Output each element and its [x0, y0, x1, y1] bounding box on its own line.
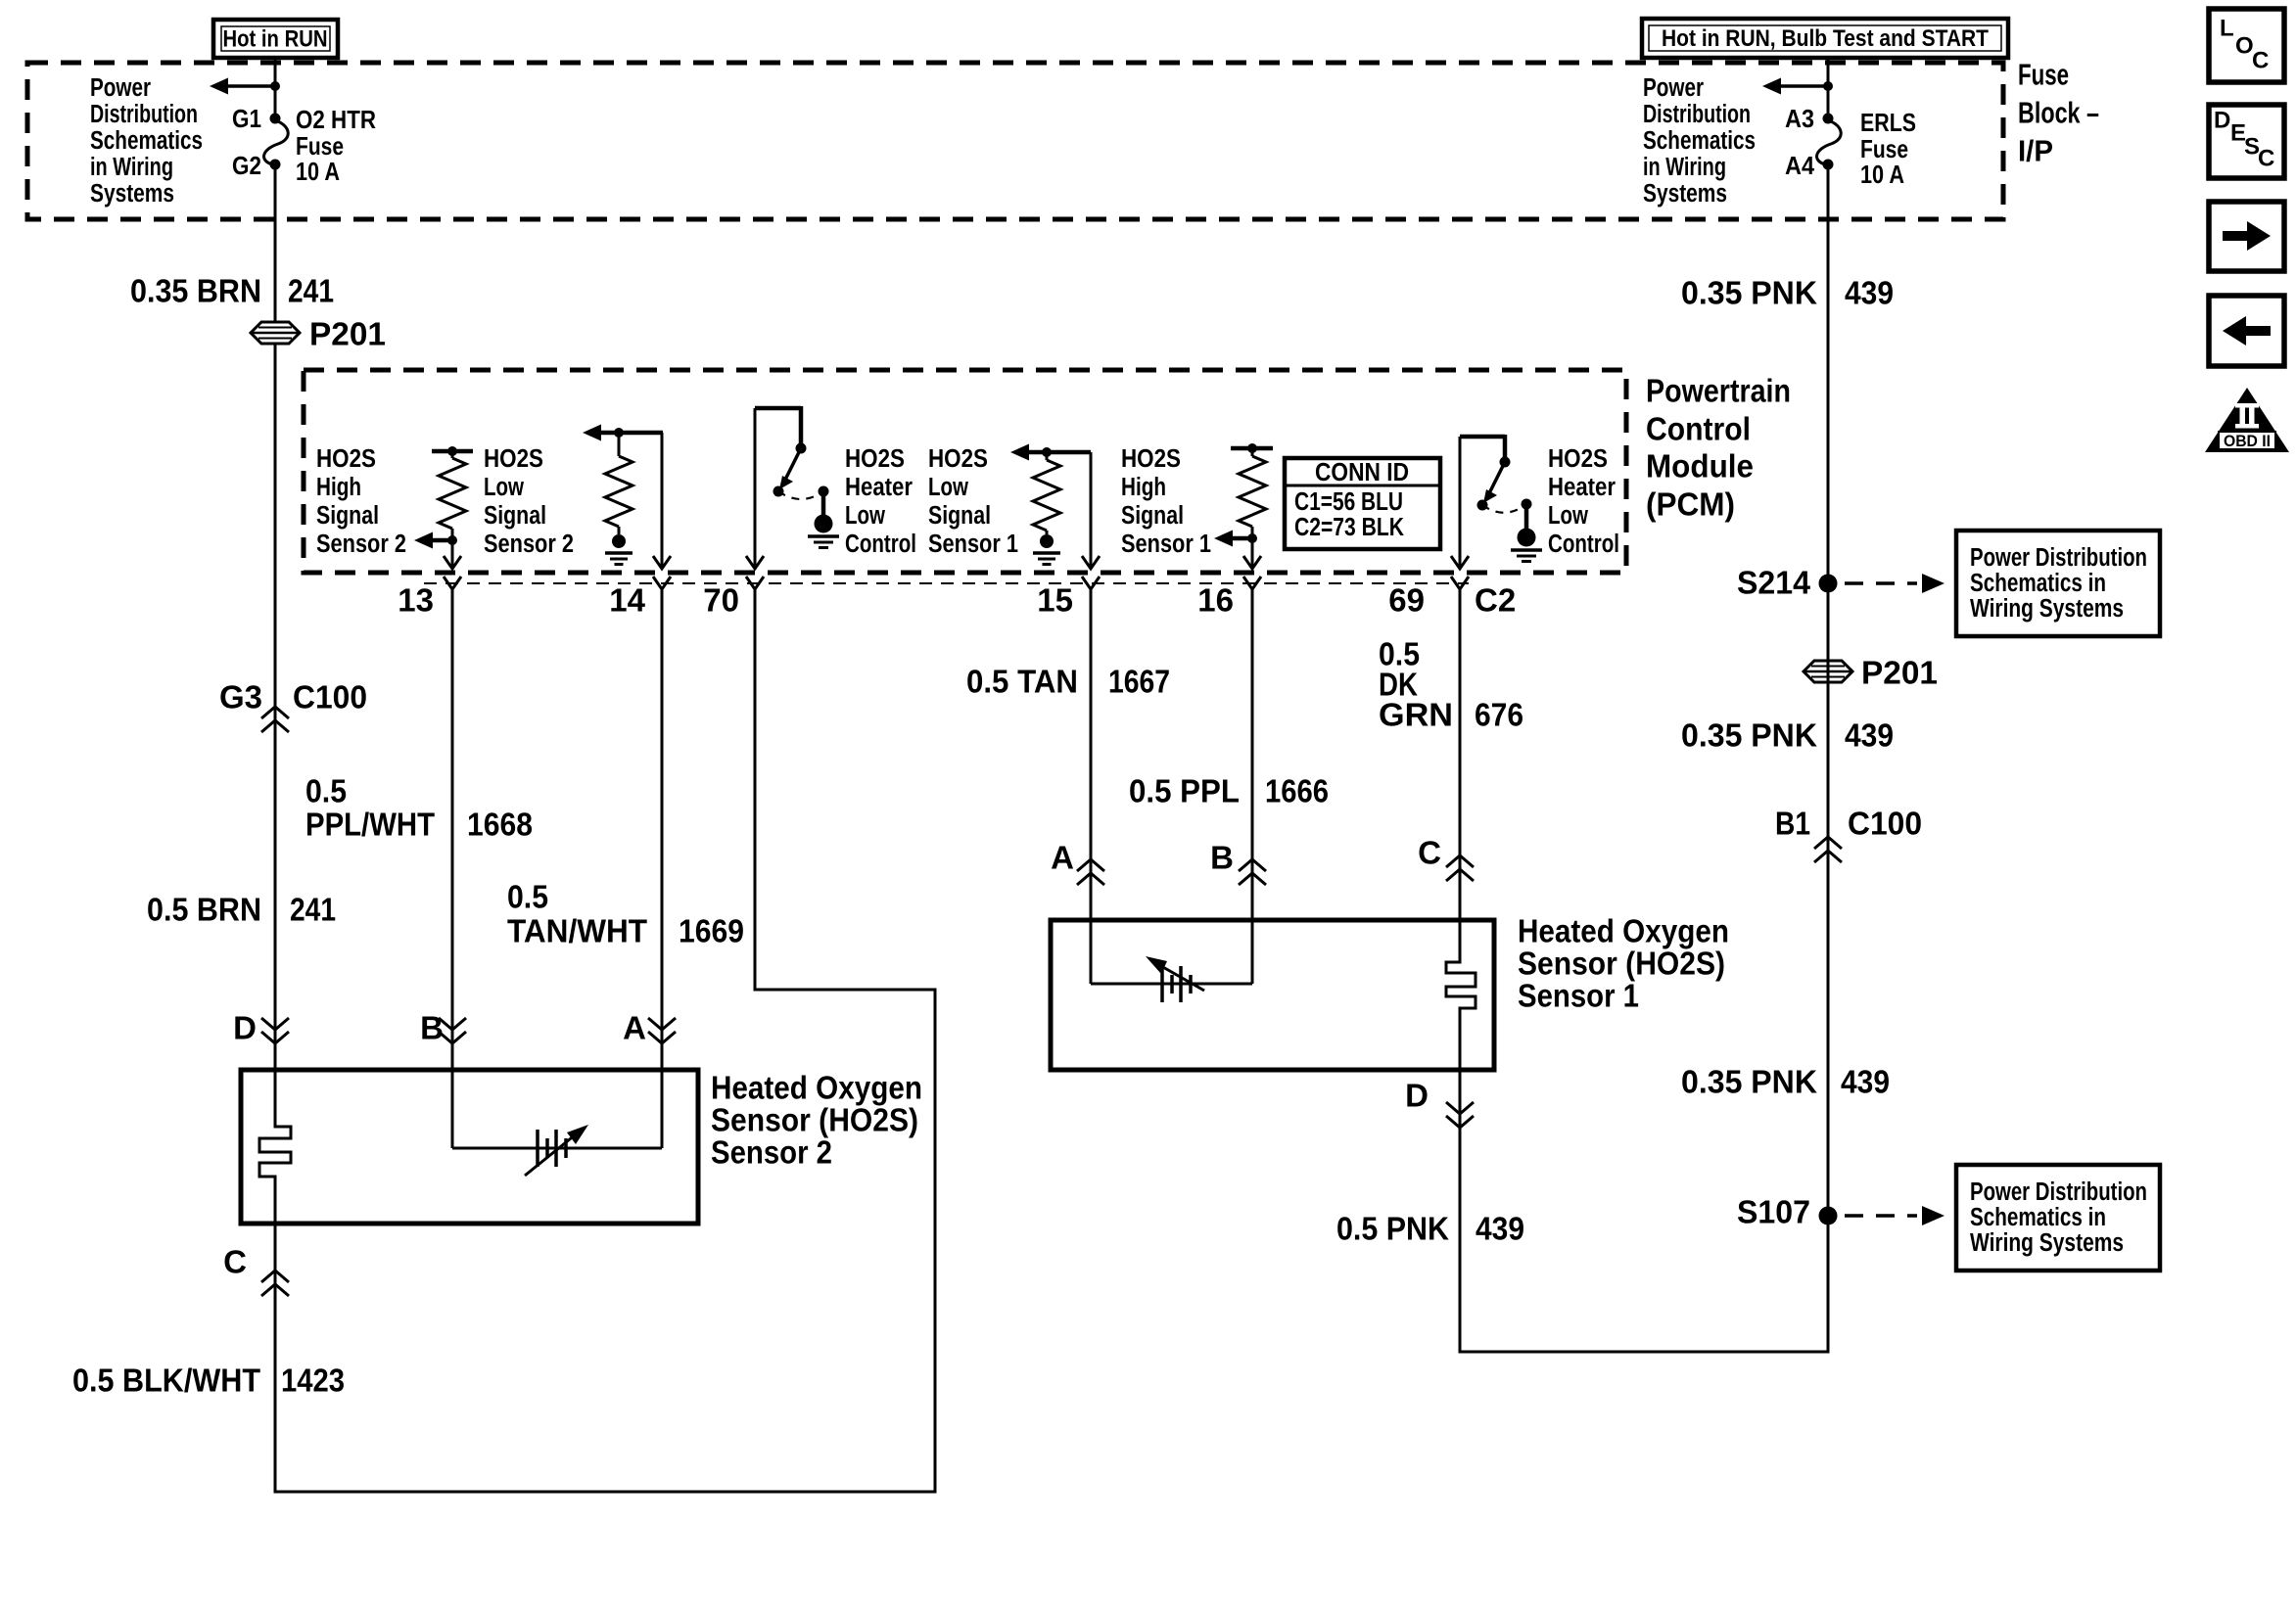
svg-text:Low: Low [845, 502, 885, 530]
svg-text:PPL/WHT: PPL/WHT [305, 807, 435, 843]
svg-text:Sensor 1: Sensor 1 [928, 531, 1018, 558]
label: HO2S High Signal Sensor 2 text [316, 445, 406, 558]
svg-text:439: 439 [1845, 275, 1894, 311]
svg-text:HO2S: HO2S [1548, 445, 1608, 473]
svg-text:0.5 BRN: 0.5 BRN [147, 892, 261, 928]
svg-text:Power Distribution: Power Distribution [1970, 1178, 2147, 1206]
wire: right feed from Hot in RUN bulb test box to fuse A3 [1827, 58, 1830, 118]
label: 0.35 PNK | 439 (top) [1681, 275, 1894, 311]
svg-text:Schematics in: Schematics in [1970, 570, 2106, 597]
sensing element sensor 1 (variable cell with arrow) [1091, 956, 1252, 1002]
label: G1 [232, 104, 261, 133]
svg-text:439: 439 [1476, 1211, 1524, 1247]
pin D sensor 1 [1405, 1078, 1474, 1129]
svg-text:10 A: 10 A [1860, 160, 1904, 189]
label: 0.35 PNK | 439 (middle) [1681, 717, 1894, 754]
svg-text:Power Distribution: Power Distribution [1970, 544, 2147, 572]
svg-text:0.35 PNK: 0.35 PNK [1681, 1064, 1817, 1100]
svg-text:A4: A4 [1785, 151, 1814, 180]
svg-text:Signal: Signal [484, 502, 546, 530]
svg-text:Signal: Signal [928, 502, 991, 530]
svg-text:C: C [223, 1244, 247, 1280]
pin 14 connector arrow [653, 556, 671, 589]
ground: R2 ground [605, 534, 633, 565]
svg-text:Schematics: Schematics [1643, 127, 1756, 155]
label: 0.5 DK GRN | 676 [1379, 636, 1523, 733]
svg-text:C100: C100 [1848, 806, 1922, 842]
label: 0.5 PNK | 439 [1336, 1211, 1524, 1247]
svg-text:G1: G1 [232, 104, 261, 133]
svg-text:C100: C100 [293, 679, 367, 716]
label: HO2S High Signal Sensor 1 text [1121, 445, 1211, 558]
svg-text:S107: S107 [1737, 1194, 1810, 1230]
svg-text:Heater: Heater [845, 474, 913, 501]
svg-text:Module: Module [1646, 448, 1754, 485]
svg-text:D: D [1405, 1078, 1429, 1114]
svg-text:Power: Power [90, 74, 151, 102]
wire: right feed PNK 439 [1827, 164, 1830, 1352]
svg-text:0.35 BRN: 0.35 BRN [130, 273, 261, 309]
connector C100 pin G3 [219, 679, 367, 733]
svg-text:Hot in RUN: Hot in RUN [223, 26, 328, 53]
Heated Oxygen Sensor HO2S Sensor 2 box [241, 1070, 698, 1224]
label: Fuse Block - I/P [2018, 58, 2099, 168]
svg-text:A: A [1051, 840, 1074, 876]
icon: forward arrow button [2209, 202, 2284, 271]
svg-text:in Wiring: in Wiring [1643, 154, 1726, 181]
svg-text:0.5: 0.5 [507, 879, 548, 915]
svg-text:O2 HTR: O2 HTR [296, 105, 376, 134]
svg-text:B: B [1210, 840, 1234, 876]
svg-text:Power: Power [1643, 74, 1704, 102]
label: G2 [232, 151, 261, 180]
wire 1669 TAN/WHT (pin 14) [661, 589, 664, 1148]
svg-text:G3: G3 [219, 679, 262, 716]
svg-text:GRN: GRN [1379, 697, 1453, 733]
svg-text:HO2S: HO2S [928, 445, 988, 473]
icon: back arrow button [2209, 296, 2284, 366]
splice S107 [1737, 1194, 1945, 1230]
arrow: internal signal pin 16 [1214, 531, 1252, 547]
resistor R4: HO2S high signal sensor 1 pullup (pin 16) [1231, 443, 1273, 569]
svg-text:0.5 PNK: 0.5 PNK [1336, 1211, 1449, 1247]
svg-text:0.35 PNK: 0.35 PNK [1681, 275, 1817, 311]
svg-text:in Wiring: in Wiring [90, 154, 173, 181]
svg-text:1667: 1667 [1108, 664, 1170, 700]
wire 1423 BLK/WHT heater return loop (pin 70) [275, 589, 935, 1492]
label: HO2S Heater Low Control text (right) [1548, 445, 1619, 558]
svg-text:Control: Control [845, 531, 916, 558]
svg-text:241: 241 [288, 273, 334, 309]
svg-text:L: L [2220, 16, 2234, 42]
pin 15 connector arrow [1082, 556, 1100, 589]
label: 0.5 PPL | 1666 [1129, 773, 1329, 809]
label: HO2S Low Signal Sensor 1 text [928, 445, 1018, 558]
label: Heated Oxygen Sensor (HO2S) Sensor 2 [711, 1070, 922, 1171]
splice S214 [1737, 565, 1945, 601]
wire: sensor2 heater return C to chevron [223, 1244, 289, 1297]
pin 70 connector arrow [746, 556, 764, 589]
sensing element sensor 2 (variable cell with arrow) [452, 1125, 662, 1176]
switch SW1: HO2S heater low control (pin 70) [755, 406, 829, 569]
svg-text:70: 70 [703, 582, 739, 619]
svg-text:C: C [1418, 835, 1441, 871]
label: power distribution schematics text (left) [90, 74, 203, 208]
label: A3 [1785, 104, 1814, 133]
svg-text:P201: P201 [1861, 655, 1938, 691]
svg-text:Low: Low [928, 474, 968, 501]
wire: sensor1 heater return to S107 [1460, 1070, 1828, 1352]
heater element sensor 1 [1446, 920, 1476, 1070]
svg-text:Sensor 1: Sensor 1 [1518, 978, 1639, 1014]
label: 0.5 BRN | 241 [147, 892, 336, 928]
wire: left feed P201 to sensor2 box [274, 344, 277, 1070]
svg-text:Schematics: Schematics [90, 127, 203, 155]
label: 0.5 BLK/WHT | 1423 [72, 1363, 345, 1399]
label: HO2S Heater Low Control text (left) [845, 445, 916, 558]
svg-text:S214: S214 [1737, 565, 1811, 601]
node: junction dot right feed [1823, 81, 1833, 91]
switch SW2: HO2S heater low control (pin 69) [1460, 435, 1532, 569]
heater element sensor 2 [259, 1070, 291, 1224]
icon: OBD II triangle [2205, 388, 2289, 452]
svg-text:Heated Oxygen: Heated Oxygen [1518, 913, 1729, 949]
svg-text:Low: Low [484, 474, 524, 501]
wire: arrow to power distribution (right) [1762, 78, 1828, 95]
svg-text:Sensor 2: Sensor 2 [484, 531, 574, 558]
svg-text:Signal: Signal [316, 502, 379, 530]
svg-text:1666: 1666 [1265, 773, 1329, 809]
label: 0.5 PPL/WHT | 1668 [305, 773, 533, 843]
label: Hot in RUN box [213, 20, 338, 58]
ground: SW2 ground [1511, 529, 1542, 562]
svg-text:Hot in RUN, Bulb Test and STAR: Hot in RUN, Bulb Test and START [1662, 25, 1989, 52]
svg-text:Sensor (HO2S): Sensor (HO2S) [1518, 946, 1725, 982]
svg-text:A3: A3 [1785, 104, 1814, 133]
PCM dashed box [304, 370, 1626, 573]
svg-text:0.5: 0.5 [305, 773, 347, 809]
label: A4 [1785, 151, 1814, 180]
arrow: internal signal pin 13 [414, 532, 452, 549]
ground: SW1 ground [808, 515, 839, 548]
label: ERLS Fuse 10 A [1860, 108, 1916, 189]
svg-text:439: 439 [1841, 1064, 1890, 1100]
svg-text:Control: Control [1548, 531, 1619, 558]
svg-text:1669: 1669 [679, 913, 744, 949]
grommet P201 (right) [1804, 655, 1938, 691]
svg-text:A: A [623, 1010, 646, 1046]
wire: left feed from Hot in RUN to fuse G1 [274, 58, 277, 118]
svg-text:Block –: Block – [2018, 96, 2099, 130]
svg-text:G2: G2 [232, 151, 261, 180]
wire: arrow to power distribution (left) [210, 78, 275, 95]
svg-text:13: 13 [398, 582, 434, 619]
svg-text:HO2S: HO2S [316, 445, 376, 473]
wire: 0.35 BRN 241 feed down to P201 [274, 164, 277, 322]
wire 1666 PPL (pin 16) [1251, 589, 1254, 984]
resistor R3: HO2S low signal sensor 1 to ground [1010, 444, 1091, 535]
svg-text:CONN ID: CONN ID [1315, 459, 1409, 486]
svg-text:TAN/WHT: TAN/WHT [507, 913, 647, 949]
svg-text:1668: 1668 [467, 807, 533, 843]
pin B sensor 2 [420, 1010, 466, 1046]
svg-text:Wiring Systems: Wiring Systems [1970, 1229, 2124, 1257]
svg-text:0.5 PPL: 0.5 PPL [1129, 773, 1240, 809]
CONN ID table [1285, 458, 1440, 549]
wire 1667 TAN (pin 15) [1090, 589, 1093, 984]
resistor R2: HO2S low signal sensor 2 to ground [583, 425, 663, 535]
label: Hot in RUN, Bulb Test and START box [1642, 19, 2008, 58]
svg-text:0.35 PNK: 0.35 PNK [1681, 717, 1817, 754]
PCM connector face dashed line [424, 582, 1469, 584]
svg-text:Signal: Signal [1121, 502, 1184, 530]
svg-text:Powertrain: Powertrain [1646, 373, 1791, 409]
svg-text:I/P: I/P [2018, 134, 2053, 168]
svg-text:High: High [316, 474, 361, 501]
label: 0.35 BRN | 241 [130, 273, 334, 309]
pin D sensor 2 [233, 1010, 289, 1046]
svg-text:Sensor 2: Sensor 2 [316, 531, 406, 558]
svg-text:Low: Low [1548, 502, 1588, 530]
svg-text:High: High [1121, 474, 1166, 501]
node: junction dot left feed [270, 81, 280, 91]
svg-text:D: D [233, 1010, 257, 1046]
svg-text:0.5 BLK/WHT: 0.5 BLK/WHT [72, 1363, 260, 1399]
svg-text:C: C [2258, 146, 2274, 172]
label: Heated Oxygen Sensor (HO2S) Sensor 1 [1518, 913, 1729, 1014]
svg-text:Systems: Systems [1643, 180, 1727, 208]
svg-text:(PCM): (PCM) [1646, 486, 1735, 523]
svg-text:16: 16 [1197, 582, 1234, 619]
svg-text:1423: 1423 [281, 1363, 345, 1399]
svg-text:Schematics in: Schematics in [1970, 1204, 2106, 1231]
label: S214 power distribution box [1956, 531, 2160, 636]
label: 0.5 TAN | 1667 [966, 664, 1170, 700]
wire 676 DK GRN (pin 69) [1459, 589, 1462, 962]
pin 13 connector arrow [444, 556, 461, 589]
svg-text:Sensor 2: Sensor 2 [711, 1134, 832, 1171]
wire: pin 14 riser [661, 433, 664, 569]
svg-text:14: 14 [609, 582, 645, 619]
pin A sensor 1 [1051, 840, 1104, 886]
pin C sensor 1 [1418, 835, 1474, 882]
svg-text:C: C [2252, 48, 2269, 74]
svg-text:10 A: 10 A [296, 157, 340, 186]
svg-text:O: O [2235, 33, 2254, 60]
resistor R1: HO2S high signal sensor 2 pullup (pin 13) [432, 446, 473, 569]
svg-text:Heated Oxygen: Heated Oxygen [711, 1070, 922, 1106]
Heated Oxygen Sensor HO2S Sensor 1 box [1051, 920, 1494, 1070]
wire: pin 15 riser [1090, 452, 1093, 569]
svg-text:ERLS: ERLS [1860, 108, 1916, 137]
label: S107 power distribution box [1956, 1165, 2160, 1270]
pin 69/C2 connector arrow [1451, 556, 1469, 589]
svg-text:Distribution: Distribution [90, 101, 198, 128]
svg-text:OBD II: OBD II [2224, 432, 2271, 450]
svg-text:Sensor (HO2S): Sensor (HO2S) [711, 1102, 918, 1138]
svg-text:HO2S: HO2S [1121, 445, 1181, 473]
pin A sensor 2 [623, 1010, 676, 1046]
svg-text:Fuse: Fuse [2018, 58, 2069, 92]
svg-text:676: 676 [1475, 697, 1523, 733]
label: 0.35 PNK | 439 (lower) [1681, 1064, 1890, 1100]
svg-text:Control: Control [1646, 411, 1751, 447]
fuse block dashed box [27, 63, 2003, 219]
fuse F1: O2 HTR Fuse 10 A [264, 114, 289, 170]
svg-text:C1=56 BLU: C1=56 BLU [1294, 488, 1403, 516]
svg-text:HO2S: HO2S [484, 445, 543, 473]
svg-text:B1: B1 [1775, 806, 1810, 842]
label: HO2S Low Signal Sensor 2 text [484, 445, 574, 558]
svg-text:69: 69 [1388, 582, 1425, 619]
svg-text:439: 439 [1845, 717, 1894, 754]
svg-text:P201: P201 [309, 316, 386, 352]
icon: DESC button [2209, 105, 2284, 178]
ground: R3 ground [1033, 534, 1060, 565]
svg-text:Wiring Systems: Wiring Systems [1970, 595, 2124, 623]
pin B sensor 1 [1210, 840, 1266, 886]
svg-text:15: 15 [1037, 582, 1073, 619]
label: Powertrain Control Module (PCM) [1646, 373, 1791, 523]
fuse F2: ERLS Fuse 10 A [1817, 114, 1842, 170]
svg-text:C2=73 BLK: C2=73 BLK [1294, 514, 1404, 541]
wire 1668 PPL/WHT (pin 13) [451, 589, 454, 1148]
svg-text:Sensor 1: Sensor 1 [1121, 531, 1211, 558]
svg-text:HO2S: HO2S [845, 445, 905, 473]
svg-text:B: B [420, 1010, 444, 1046]
connector C100 pin B1 [1775, 806, 1922, 863]
pin 16 connector arrow [1243, 556, 1261, 589]
icon: LOC button [2209, 9, 2284, 82]
svg-text:Systems: Systems [90, 180, 174, 208]
grommet P201 (left) [251, 316, 386, 352]
svg-text:D: D [2214, 108, 2230, 134]
label: power distribution schematics text (right) [1643, 74, 1756, 208]
svg-text:Heater: Heater [1548, 474, 1616, 501]
svg-text:241: 241 [290, 892, 336, 928]
svg-text:Distribution: Distribution [1643, 101, 1751, 128]
label: 0.5 TAN/WHT | 1669 [507, 879, 744, 949]
svg-text:0.5 TAN: 0.5 TAN [966, 664, 1078, 700]
label: O2 HTR Fuse 10 A [296, 105, 376, 186]
svg-text:C2: C2 [1475, 582, 1516, 619]
